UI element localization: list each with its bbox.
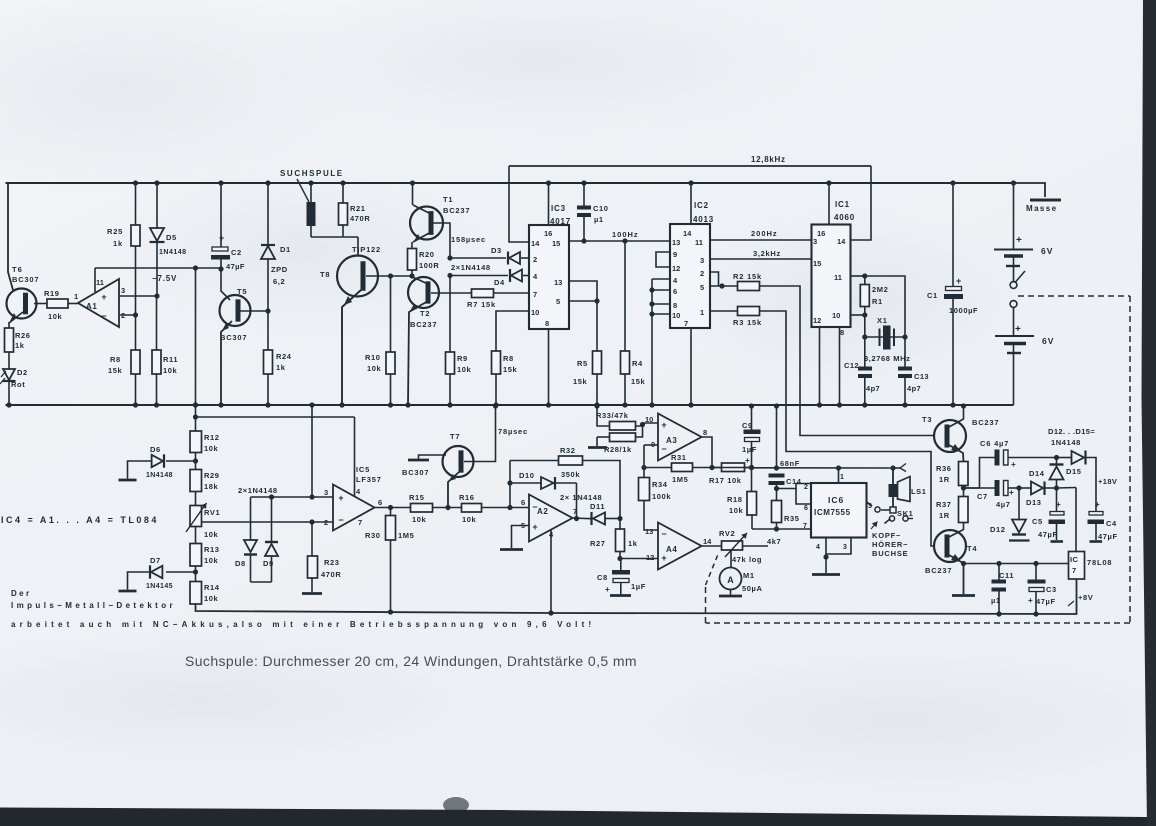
wire IC2 pins 4/6/8/10 tie bbox=[652, 278, 670, 280]
svg-text:3: 3 bbox=[813, 237, 817, 246]
svg-text:IC6: IC6 bbox=[828, 495, 844, 505]
switch S1 bbox=[1013, 256, 1015, 282]
svg-text:R26: R26 bbox=[15, 331, 31, 340]
svg-text:D1: D1 bbox=[280, 245, 291, 254]
svg-text:R16: R16 bbox=[459, 493, 475, 502]
svg-text:R28/1k: R28/1k bbox=[604, 445, 632, 454]
svg-text:12: 12 bbox=[672, 264, 680, 273]
svg-text:R23: R23 bbox=[324, 558, 340, 567]
svg-text:10k: 10k bbox=[457, 365, 472, 374]
svg-text:8: 8 bbox=[673, 301, 677, 310]
svg-text:470R: 470R bbox=[321, 570, 341, 579]
svg-text:R8: R8 bbox=[110, 355, 121, 364]
svg-text:470R: 470R bbox=[350, 214, 370, 223]
svg-text:10k: 10k bbox=[367, 364, 382, 373]
svg-text:3: 3 bbox=[324, 488, 328, 497]
svg-text:2: 2 bbox=[700, 269, 704, 278]
svg-text:D6: D6 bbox=[150, 445, 161, 454]
wire D5 col to R11 bbox=[156, 296, 158, 350]
resistor R3 bbox=[710, 310, 738, 312]
svg-text:+: + bbox=[1015, 324, 1021, 335]
svg-text:BC307: BC307 bbox=[220, 333, 247, 342]
svg-text:3: 3 bbox=[121, 286, 125, 295]
svg-text:+: + bbox=[956, 276, 961, 286]
wire D2 to rail bbox=[8, 382, 10, 405]
ground Masse symbol bbox=[1030, 199, 1061, 202]
svg-text:+: + bbox=[661, 420, 666, 430]
svg-text:D12: D12 bbox=[990, 525, 1006, 534]
svg-text:2×1N4148: 2×1N4148 bbox=[238, 486, 278, 495]
svg-text:R27: R27 bbox=[590, 539, 606, 548]
svg-text:+: + bbox=[1016, 235, 1022, 246]
svg-text:4p7: 4p7 bbox=[907, 384, 921, 393]
svg-text:R3 15k: R3 15k bbox=[733, 318, 762, 327]
capacitor C11 bbox=[996, 561, 1001, 566]
svg-text:C5: C5 bbox=[1032, 517, 1043, 526]
scanner right band bbox=[1142, 0, 1156, 826]
svg-text:158µsec: 158µsec bbox=[451, 235, 486, 244]
IC U IC3 4017 bbox=[529, 225, 569, 329]
svg-text:15k: 15k bbox=[573, 377, 588, 386]
svg-text:Suchspule: Durchmesser 20 cm,: Suchspule: Durchmesser 20 cm, 24 Windung… bbox=[185, 653, 637, 669]
transistor T5 bbox=[220, 295, 251, 326]
wire IC3 pin16 to rail bbox=[548, 183, 550, 225]
svg-text:BC237: BC237 bbox=[410, 320, 437, 329]
svg-text:8: 8 bbox=[545, 319, 549, 328]
wire -7.5V node bbox=[95, 267, 221, 269]
svg-text:4060: 4060 bbox=[834, 213, 855, 222]
svg-text:15k: 15k bbox=[108, 366, 123, 375]
wire T7 collector to rail bbox=[464, 406, 496, 462]
diode D13 bbox=[1019, 487, 1031, 489]
resistor R8 bbox=[131, 350, 140, 374]
resistor R29 bbox=[190, 470, 202, 492]
svg-text:+8V: +8V bbox=[1078, 593, 1093, 602]
svg-text:ZPD: ZPD bbox=[271, 265, 288, 274]
crystal X1 3.2768MHz bbox=[864, 315, 866, 337]
wire IC3 pins 13/5 to R5 bbox=[569, 281, 597, 301]
svg-text:+: + bbox=[1056, 500, 1061, 509]
resistor R18 10k bbox=[751, 468, 753, 492]
svg-text:R18: R18 bbox=[727, 495, 743, 504]
svg-text:18k: 18k bbox=[204, 482, 219, 491]
svg-text:10k: 10k bbox=[204, 444, 219, 453]
svg-text:6: 6 bbox=[673, 287, 677, 296]
svg-text:+: + bbox=[338, 493, 343, 503]
dashed enclosure bbox=[1018, 295, 1130, 297]
svg-text:10: 10 bbox=[832, 311, 840, 320]
wire T4 collector bbox=[949, 530, 964, 538]
svg-text:10k: 10k bbox=[462, 515, 477, 524]
svg-text:3: 3 bbox=[843, 544, 847, 551]
svg-text:ICM7555: ICM7555 bbox=[814, 508, 851, 517]
svg-text:15: 15 bbox=[813, 259, 821, 268]
svg-text:68nF: 68nF bbox=[780, 459, 800, 468]
svg-text:2× 1N4148: 2× 1N4148 bbox=[560, 493, 602, 502]
resistor R28/1k bbox=[597, 436, 610, 438]
wire D10 to output node bbox=[576, 483, 578, 519]
svg-text:1k: 1k bbox=[628, 539, 638, 548]
wire top supply rail bbox=[6, 182, 1014, 184]
svg-text:R11: R11 bbox=[163, 355, 178, 364]
svg-text:−7.5V: −7.5V bbox=[152, 274, 177, 283]
svg-text:T2: T2 bbox=[420, 309, 430, 318]
svg-text:11: 11 bbox=[834, 273, 842, 282]
svg-text:X1: X1 bbox=[877, 316, 888, 325]
svg-text:R9: R9 bbox=[457, 354, 468, 363]
resistor R32 350k bbox=[510, 460, 559, 462]
svg-text:4: 4 bbox=[816, 544, 820, 551]
IC U IC1 4060 bbox=[812, 225, 851, 328]
diode D8 bbox=[250, 497, 252, 540]
svg-text:1: 1 bbox=[840, 474, 844, 481]
svg-text:14: 14 bbox=[531, 239, 540, 248]
svg-text:Rot: Rot bbox=[11, 380, 25, 389]
svg-text:D7: D7 bbox=[150, 556, 161, 565]
svg-text:BC237: BC237 bbox=[925, 566, 952, 575]
wire T4 emitter to ground bbox=[949, 555, 964, 594]
capacitor C2 bbox=[220, 183, 222, 247]
transistor T3 bbox=[934, 420, 966, 452]
capacitor C6 4u7 bbox=[964, 487, 980, 489]
wire R25 col to R8 bbox=[135, 315, 137, 350]
svg-text:10: 10 bbox=[531, 308, 539, 317]
svg-text:+: + bbox=[1011, 460, 1016, 469]
wire IC3 pin8 to rail bbox=[548, 329, 550, 405]
resistor R16 bbox=[462, 504, 482, 513]
svg-text:D8: D8 bbox=[235, 559, 246, 568]
svg-text:A1: A1 bbox=[86, 302, 97, 311]
diode D7 bbox=[166, 571, 196, 573]
capacitor C10 bbox=[583, 183, 585, 206]
wire T5 emitter down bbox=[221, 321, 232, 405]
svg-text:C10: C10 bbox=[593, 204, 609, 213]
svg-text:SK1: SK1 bbox=[897, 509, 913, 518]
svg-text:13: 13 bbox=[554, 278, 562, 287]
svg-text:R19: R19 bbox=[44, 289, 60, 298]
diode D15 bbox=[1054, 455, 1059, 460]
svg-text:9: 9 bbox=[673, 250, 677, 259]
svg-text:R32: R32 bbox=[560, 446, 576, 455]
diode D10 bbox=[510, 482, 541, 484]
wire IC2 pin2 loop to pin5 bbox=[710, 272, 719, 286]
svg-text:1M5: 1M5 bbox=[398, 531, 414, 540]
svg-text:A2: A2 bbox=[537, 507, 548, 516]
svg-text:M1: M1 bbox=[743, 571, 755, 580]
svg-text:R8: R8 bbox=[503, 354, 514, 363]
capacitor C9 1uF bbox=[749, 403, 754, 408]
svg-text:10k: 10k bbox=[163, 366, 178, 375]
svg-text:4k7: 4k7 bbox=[767, 537, 781, 546]
svg-text:C13: C13 bbox=[914, 372, 929, 381]
svg-text:C3: C3 bbox=[1046, 585, 1057, 594]
svg-text:2×1N4148: 2×1N4148 bbox=[451, 263, 491, 272]
svg-text:D10: D10 bbox=[519, 471, 535, 480]
resistor R37 1R bbox=[959, 497, 969, 523]
wire bottom rail upper section bbox=[6, 404, 1014, 406]
resistor R31 1M5 bbox=[644, 467, 672, 469]
svg-text:D9: D9 bbox=[263, 559, 274, 568]
capacitor C13 bbox=[904, 337, 906, 367]
svg-text:10k: 10k bbox=[729, 506, 744, 515]
svg-text:50µA: 50µA bbox=[742, 584, 762, 593]
svg-text:10k: 10k bbox=[204, 530, 219, 539]
svg-text:+: + bbox=[745, 456, 750, 465]
svg-text:+: + bbox=[1028, 596, 1033, 605]
svg-text:1N4148: 1N4148 bbox=[146, 472, 173, 479]
wire rail to IC5 +input bbox=[309, 402, 314, 407]
wire IC2 pins 9-12 loop bbox=[656, 252, 670, 267]
wire C2 to T5 base bbox=[221, 269, 230, 300]
svg-text:D5: D5 bbox=[166, 233, 177, 242]
svg-text:A4: A4 bbox=[666, 545, 677, 554]
svg-text:10k: 10k bbox=[204, 594, 219, 603]
wire T1 base to D3 column bbox=[433, 223, 450, 258]
svg-text:R2 15k: R2 15k bbox=[733, 272, 762, 281]
wire A3 -input bbox=[644, 444, 658, 446]
resistor R5 bbox=[596, 301, 598, 351]
svg-text:10k: 10k bbox=[204, 556, 219, 565]
capacitor C14 bbox=[774, 465, 779, 470]
svg-text:47µF: 47µF bbox=[1036, 597, 1056, 606]
capacitor C7 4u7 bbox=[995, 480, 1000, 496]
wire IC2 pin14 to rail bbox=[690, 183, 692, 224]
svg-text:6V: 6V bbox=[1042, 336, 1054, 346]
resistor R35 4k7 bbox=[776, 489, 778, 501]
svg-text:15k: 15k bbox=[631, 377, 646, 386]
wire R2 output to T3 base bbox=[760, 286, 935, 436]
svg-text:2: 2 bbox=[804, 484, 808, 491]
svg-text:1µF: 1µF bbox=[742, 445, 757, 454]
battery B2 6V bbox=[1013, 308, 1015, 337]
wire T3 collector to rail bbox=[949, 406, 964, 427]
transistor T2 bbox=[408, 277, 439, 308]
op-amp A1 bbox=[78, 279, 119, 327]
resistor R27 1k bbox=[619, 519, 621, 530]
svg-text:R5: R5 bbox=[577, 359, 588, 368]
wire IC6 pin1 stem bbox=[836, 465, 841, 470]
svg-text:1M5: 1M5 bbox=[672, 475, 688, 484]
diode D5 bbox=[156, 183, 158, 229]
wire T3 emitter bbox=[949, 445, 964, 462]
IC U IC7 78L08 bbox=[1075, 488, 1077, 552]
svg-text:R10: R10 bbox=[365, 353, 381, 362]
scanner bottom band bbox=[0, 808, 1156, 826]
meter M1 50uA bbox=[730, 550, 732, 568]
resistor R9 bbox=[449, 276, 451, 353]
svg-text:13: 13 bbox=[672, 238, 680, 247]
resistor R34 100k bbox=[643, 445, 645, 478]
wire IC5 output bbox=[375, 507, 411, 509]
svg-text:D14: D14 bbox=[1029, 469, 1045, 478]
wire A1 pin11 stem bbox=[94, 268, 96, 292]
wire pin11 over to crystal right bbox=[865, 276, 905, 337]
wire 12.8kHz line bbox=[509, 165, 871, 167]
svg-text:IC1: IC1 bbox=[835, 200, 850, 209]
svg-text:11: 11 bbox=[96, 278, 104, 287]
transistor T4 bbox=[934, 530, 966, 562]
svg-text:+: + bbox=[532, 522, 537, 532]
resistor R12 bbox=[193, 402, 198, 407]
svg-text:BUCHSE: BUCHSE bbox=[872, 549, 908, 558]
wire C14 to IC6 pins 2/6 bbox=[777, 484, 812, 489]
resistor R7 bbox=[472, 289, 494, 298]
wire coil/R21 to T8 collector bbox=[311, 236, 358, 238]
svg-text:12,8kHz: 12,8kHz bbox=[751, 155, 786, 164]
wire IC5 pin4 stem bbox=[354, 417, 356, 496]
capacitor C3 47uF bbox=[1033, 561, 1038, 566]
svg-text:−: − bbox=[661, 529, 666, 539]
ground below R23 bbox=[311, 578, 313, 592]
svg-text:C9: C9 bbox=[742, 421, 753, 430]
capacitor C1 1000uF bbox=[952, 183, 954, 287]
svg-text:1N4145: 1N4145 bbox=[146, 583, 173, 590]
resistor R21 bbox=[342, 183, 344, 203]
svg-text:D4: D4 bbox=[494, 278, 505, 287]
svg-text:47k log: 47k log bbox=[732, 555, 762, 564]
svg-text:7: 7 bbox=[533, 290, 537, 299]
svg-text:R35: R35 bbox=[784, 514, 800, 523]
svg-text:R31: R31 bbox=[671, 453, 687, 462]
svg-text:D11: D11 bbox=[590, 502, 605, 511]
svg-text:C2: C2 bbox=[231, 248, 242, 257]
svg-text:1N4148: 1N4148 bbox=[1051, 438, 1081, 447]
svg-text:T1: T1 bbox=[443, 195, 453, 204]
svg-text:R12: R12 bbox=[204, 433, 220, 442]
wire T4 emitter node to IC7 bbox=[964, 563, 1069, 565]
wire R3 output to T4 base bbox=[760, 311, 935, 546]
svg-text:12: 12 bbox=[813, 316, 821, 325]
svg-text:T5: T5 bbox=[237, 287, 247, 296]
svg-text:100R: 100R bbox=[419, 261, 439, 270]
svg-text:13: 13 bbox=[645, 527, 653, 536]
svg-text:IC5: IC5 bbox=[356, 465, 370, 474]
svg-text:6V: 6V bbox=[1041, 246, 1053, 256]
svg-text:R20: R20 bbox=[419, 250, 435, 259]
capacitor C12 bbox=[864, 337, 866, 367]
svg-text:R13: R13 bbox=[204, 545, 220, 554]
svg-text:+: + bbox=[661, 553, 666, 563]
resistor R17 10k bbox=[722, 463, 745, 472]
svg-text:11: 11 bbox=[695, 238, 703, 247]
svg-text:7: 7 bbox=[358, 518, 362, 527]
diode D6 bbox=[166, 460, 196, 462]
svg-text:+: + bbox=[1009, 488, 1014, 497]
svg-text:T3: T3 bbox=[922, 415, 932, 424]
svg-text:10: 10 bbox=[672, 311, 680, 320]
svg-text:10: 10 bbox=[645, 415, 653, 424]
zener diode D1 ZPD 6.2 bbox=[267, 183, 269, 245]
wire A4 +input from R27 bbox=[620, 558, 658, 560]
resistor R20 bbox=[411, 242, 413, 249]
svg-text:350k: 350k bbox=[561, 470, 580, 479]
svg-text:IC2: IC2 bbox=[694, 201, 709, 210]
svg-text:HÖRER−: HÖRER− bbox=[872, 540, 908, 549]
svg-text:LS1: LS1 bbox=[911, 487, 927, 496]
resistor R23 bbox=[309, 519, 314, 524]
transistor T7 bbox=[443, 446, 474, 477]
svg-text:R24: R24 bbox=[276, 352, 292, 361]
svg-text:C14: C14 bbox=[786, 477, 802, 486]
inductor Suchspule coil bbox=[310, 183, 312, 202]
svg-text:2: 2 bbox=[324, 518, 328, 527]
svg-text:arbeitet auch mit NC−Akkus,als: arbeitet auch mit NC−Akkus,also mit eine… bbox=[11, 620, 595, 629]
wire IC1 pin14 to 12.8kHz bbox=[851, 166, 872, 240]
svg-text:R4: R4 bbox=[632, 359, 643, 368]
svg-text:6: 6 bbox=[521, 498, 525, 507]
wire C9 top rail stub marker bbox=[749, 465, 754, 470]
svg-text:+: + bbox=[101, 292, 106, 302]
wire left edge vertical bbox=[8, 183, 13, 290]
svg-text:−: − bbox=[532, 502, 537, 512]
resistor R25 bbox=[131, 225, 140, 246]
transistor T1 bbox=[410, 180, 415, 185]
resistor R33/47k bbox=[597, 406, 610, 426]
resistor R15 bbox=[411, 504, 433, 513]
resistor R24 bbox=[267, 311, 269, 350]
battery B1 6V bbox=[1011, 180, 1016, 185]
svg-text:78µsec: 78µsec bbox=[498, 427, 528, 436]
svg-text:2M2: 2M2 bbox=[872, 285, 888, 294]
svg-text:1k: 1k bbox=[276, 363, 286, 372]
wire bottom long rail bbox=[196, 579, 1077, 614]
resistor R1 2M2 bbox=[851, 275, 865, 277]
wire R26 to D2 bbox=[8, 352, 10, 369]
svg-text:Impuls−Metall−Detektor: Impuls−Metall−Detektor bbox=[11, 601, 176, 610]
switch SK1 headphone jack bbox=[890, 507, 896, 513]
wire R33/R28 to A3 +input bbox=[636, 423, 659, 426]
wire rail tap for R33 bbox=[594, 403, 599, 408]
svg-text:6: 6 bbox=[378, 498, 382, 507]
wire 200Hz IC2 pin11 to IC1 pin3 bbox=[710, 239, 812, 241]
svg-text:−: − bbox=[338, 515, 343, 525]
ground at T7 base bbox=[419, 455, 447, 459]
svg-text:C11: C11 bbox=[999, 571, 1014, 580]
wire A2 pin4 to bottom rail bbox=[550, 530, 552, 613]
svg-text:C7: C7 bbox=[977, 492, 988, 501]
wire IC1 pin10 bbox=[851, 314, 865, 316]
wire T8 base bbox=[366, 275, 412, 277]
wire T8 emitter bbox=[342, 290, 361, 405]
capacitor C8 bbox=[620, 559, 622, 571]
svg-text:1: 1 bbox=[74, 292, 78, 301]
svg-text:1k: 1k bbox=[113, 239, 123, 248]
wire R18 bottom to IC6 pin7 bbox=[752, 528, 811, 530]
svg-text:R14: R14 bbox=[204, 583, 220, 592]
svg-text:2: 2 bbox=[533, 255, 537, 264]
resistor R19 bbox=[47, 299, 68, 308]
svg-text:A: A bbox=[727, 575, 734, 585]
wire 68nF node rail stub bbox=[774, 403, 779, 408]
wire T5 right to D1 column bbox=[240, 310, 268, 312]
wire rail to Masse bbox=[1014, 183, 1046, 197]
svg-text:5: 5 bbox=[700, 283, 704, 292]
wire A4 output to RV2 bbox=[702, 545, 722, 547]
svg-text:C4: C4 bbox=[1106, 519, 1117, 528]
svg-text:10k: 10k bbox=[412, 515, 427, 524]
svg-text:+18V: +18V bbox=[1098, 477, 1117, 486]
wire A3 output down to R31/R17 bbox=[702, 437, 713, 468]
transistor T6 bbox=[7, 289, 37, 319]
IC U IC6 ICM7555 bbox=[811, 483, 867, 538]
svg-text:7: 7 bbox=[1072, 566, 1077, 575]
resistor R26 bbox=[5, 328, 14, 352]
wire 12.8kHz to IC3 pin14 bbox=[509, 166, 529, 242]
svg-text:1k: 1k bbox=[15, 341, 25, 350]
svg-text:+: + bbox=[605, 585, 610, 594]
svg-text:IC4 = A1. . . A4 = TL084: IC4 = A1. . . A4 = TL084 bbox=[1, 515, 159, 525]
wire A2 +input ground bbox=[512, 526, 530, 549]
